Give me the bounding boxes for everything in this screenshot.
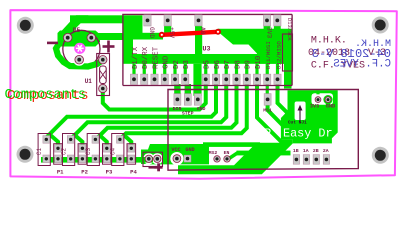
- svg-text:C4: C4: [110, 148, 117, 156]
- pad GND mid: [194, 94, 201, 106]
- pad DIR: [174, 94, 181, 106]
- connector P2 outline: [78, 144, 87, 165]
- wire: net U1-D5: [103, 82, 206, 110]
- wire: strip above MS2/EN: [203, 142, 260, 147]
- wire: 3V3 top pad stub: [264, 26, 271, 31]
- svg-text:3V3: 3V3: [266, 27, 273, 38]
- pad 2B: [313, 155, 319, 165]
- via right of red trace: [215, 29, 220, 34]
- svg-text:GND: GND: [163, 55, 171, 69]
- svg-text:Easy Dr: Easy Dr: [283, 127, 333, 141]
- pad P1 top: [55, 145, 62, 153]
- svg-text:Composants: Composants: [5, 88, 87, 103]
- svg-text:R5: R5: [73, 27, 81, 34]
- pad C1 bottom: [43, 155, 50, 163]
- svg-text:P2: P2: [81, 169, 88, 176]
- pad C2 top: [67, 136, 74, 144]
- svg-text:D2: D2: [173, 60, 181, 69]
- component U1 outline: [97, 54, 110, 96]
- svg-text:2A: 2A: [323, 148, 329, 154]
- svg-text:1B: 1B: [293, 148, 299, 154]
- svg-text:GND: GND: [185, 147, 194, 153]
- wire: wide D4 trace down to GND pad: [193, 64, 201, 96]
- wire: net D12 diagonal into pour: [278, 82, 292, 117]
- wire: diagonal band1 to R5 blob: [61, 15, 89, 31]
- R5 pink center with star: [74, 43, 85, 54]
- pad 1A: [303, 155, 309, 165]
- svg-text:U1: U1: [85, 78, 93, 85]
- plus mark power: [155, 163, 163, 171]
- pad 1B: [293, 155, 299, 165]
- svg-text:D9: D9: [245, 60, 253, 69]
- svg-text:STEP: STEP: [182, 110, 194, 116]
- wire: VCC/GND power band: [145, 144, 209, 164]
- pad P2 top: [79, 145, 86, 153]
- pad MS1: [264, 94, 271, 106]
- minus mark power: [149, 166, 156, 169]
- pad STEP: [184, 94, 191, 106]
- svg-text:VCC: VCC: [171, 147, 180, 153]
- svg-text:D3: D3: [183, 60, 191, 69]
- wire: strip to EN/pour: [237, 151, 291, 156]
- svg-text:GND: GND: [148, 27, 155, 38]
- svg-text:MS2: MS2: [209, 150, 218, 156]
- pad C4 bottom: [117, 155, 124, 163]
- U3 main pin row pads: [130, 74, 281, 84]
- wire: GND pad ring in pour: [323, 95, 332, 104]
- plus mark right of R5: [103, 41, 115, 53]
- wire: branch to P1 top: [50, 134, 59, 148]
- board outline: [10, 10, 396, 179]
- wire: U3 pour top-left block: [123, 15, 143, 39]
- svg-text:D1/TX: D1/TX: [132, 46, 140, 69]
- svg-text:A0: A0: [199, 27, 206, 35]
- svg-text:P1: P1: [57, 169, 64, 176]
- pad R5 bottom: [75, 55, 84, 64]
- wire: green under power connector: [141, 150, 164, 165]
- pad C3 bottom: [92, 155, 99, 163]
- wire: 3V3 stub up: [316, 90, 319, 94]
- wire: trace under GND pad to red via: [142, 33, 163, 40]
- via left of red trace: [159, 32, 164, 37]
- wire: red +5V trace: [162, 32, 218, 35]
- pad C1 top: [43, 136, 50, 144]
- pad C3 top: [92, 136, 99, 144]
- wire: band 2 from R5 to U3: [98, 33, 123, 40]
- wire: D13 top pad stub: [274, 26, 281, 31]
- mounting hole top-left: [17, 17, 34, 34]
- wire: D2 to DIR stub: [174, 84, 180, 95]
- svg-text:tuP: tuP: [250, 127, 271, 141]
- power connector outline: [143, 152, 163, 166]
- svg-text:RESET: RESET: [152, 46, 160, 69]
- svg-text:D5: D5: [204, 60, 212, 69]
- svg-text:D0/RX: D0/RX: [142, 46, 150, 69]
- pad +5V top: [164, 15, 171, 26]
- svg-text:D7: D7: [224, 60, 232, 69]
- wire: top band 1 to R5: [70, 15, 123, 23]
- wire: net D11 via MS1 into pour (white clearance): [266, 84, 269, 95]
- pad VCC: [173, 155, 181, 163]
- svg-text:+5V: +5V: [168, 27, 175, 38]
- wire: A0 pad stub down: [195, 26, 202, 56]
- svg-text:C3: C3: [85, 148, 92, 156]
- pad U1 bottom: [99, 84, 107, 92]
- pad D13/SCK top: [274, 15, 281, 26]
- wire: stubs band3 to U3 pin row: [132, 64, 279, 75]
- svg-text:3V3: 3V3: [310, 103, 319, 109]
- svg-text:P3: P3: [106, 169, 113, 176]
- svg-text:M.H.K.: M.H.K.: [311, 36, 347, 47]
- capacitor C4 outline: [112, 134, 124, 166]
- svg-text:D10: D10: [255, 56, 263, 69]
- U1 body: [100, 66, 107, 84]
- wire: bottom bus to C/P pads: [41, 157, 153, 163]
- svg-text:EN: EN: [224, 150, 230, 156]
- pad R5 left: [63, 33, 72, 42]
- wire: EN stub from strip: [229, 153, 238, 159]
- svg-text:C.F. YVES: C.F. YVES: [333, 59, 391, 71]
- svg-text:D6: D6: [214, 60, 222, 69]
- potentiometer R5 outline: [63, 30, 100, 67]
- pad EN: [224, 156, 230, 162]
- pad P4 top: [128, 145, 135, 153]
- svg-text:U3: U3: [203, 46, 211, 53]
- svg-text:2B: 2B: [313, 148, 319, 154]
- connector P3 outline: [103, 144, 112, 165]
- svg-text:D12/MISO: D12/MISO: [275, 41, 282, 69]
- svg-text:1A: 1A: [303, 148, 309, 154]
- svg-text:GND: GND: [326, 103, 335, 109]
- pad A0 top: [195, 15, 202, 26]
- svg-text:C2: C2: [60, 148, 67, 156]
- wire: net D10 diagonal into wedge: [257, 82, 284, 144]
- driver module outline: [168, 90, 358, 171]
- wire: bottom wide band with wedge to pour: [178, 139, 293, 174]
- label C.F. YVES blue mirrored: [333, 59, 391, 71]
- pad GND top: [144, 15, 151, 26]
- mounting hole bottom-right: [372, 147, 389, 164]
- pad U1 top: [99, 56, 107, 64]
- connector P4 outline: [127, 144, 136, 165]
- arrow cut SJ1: [298, 105, 303, 124]
- pad R5 right: [87, 33, 96, 42]
- minus mark left of R5: [47, 42, 58, 45]
- pad MS2: [214, 156, 220, 162]
- pad 2A: [323, 155, 329, 165]
- wire: branch to P4 top: [123, 134, 131, 148]
- wire: band 3 across U3: [123, 54, 292, 64]
- svg-text:P4: P4: [130, 169, 137, 176]
- pad power -: [145, 155, 152, 162]
- pad 3V3 top: [263, 15, 270, 26]
- svg-text:D8: D8: [234, 60, 242, 69]
- wire: branch to P2 top: [74, 134, 83, 148]
- clearance around R5 bottom pad: [73, 54, 85, 66]
- svg-text:MS1: MS1: [263, 107, 272, 113]
- label 04-2018 V-3 blue mirrored: [312, 47, 391, 61]
- pad 3V3 small: [315, 97, 321, 103]
- svg-text:DIR: DIR: [173, 106, 182, 112]
- pad P4 bottom: [128, 155, 135, 163]
- wire: U3 right pour: [218, 29, 292, 89]
- pad P1 bottom: [55, 155, 62, 163]
- wire: right module ground pour: [281, 90, 338, 143]
- label M.H.K. blue mirrored: [355, 39, 391, 50]
- capacitor C3 outline: [87, 134, 99, 166]
- svg-text:D13/SCK: D13/SCK: [286, 18, 292, 41]
- pad GND power: [184, 155, 191, 162]
- wire: branch to P3 top: [99, 134, 107, 148]
- svg-text:C1: C1: [36, 148, 43, 156]
- jumper SJ1 box: [283, 34, 293, 71]
- wire: net D9 to C4/P4: [120, 82, 247, 139]
- component U3 outline (arduino nano socket): [123, 14, 292, 85]
- pad P3 bottom: [103, 155, 110, 163]
- pad C4 top: [117, 136, 124, 144]
- svg-text:GND: GND: [197, 106, 206, 112]
- pad GND small: [325, 97, 331, 103]
- svg-text:D11/MOSI: D11/MOSI: [265, 41, 272, 69]
- pad power +: [154, 155, 161, 162]
- wire: net D7 to C2/P2: [71, 82, 226, 140]
- capacitor C1 outline: [38, 134, 50, 166]
- wire: R5 around-left trace to U1: [56, 45, 102, 67]
- mounting hole top-right: [372, 17, 389, 34]
- svg-text:C.F.: C.F.: [311, 61, 335, 72]
- wire: D3 to STEP stub: [185, 84, 191, 95]
- connector P1 outline: [54, 144, 63, 165]
- white clearance VCC pad: [170, 152, 183, 165]
- pad P3 top: [103, 145, 110, 153]
- mounting hole bottom-left: [17, 146, 34, 163]
- pad C2 bottom: [67, 155, 74, 163]
- capacitor C2 outline: [63, 134, 75, 166]
- wire: R5 pads blob: [58, 31, 101, 47]
- pad P2 bottom: [79, 155, 86, 163]
- wire: +5V pad stub: [164, 26, 171, 37]
- wire: U3 pour left column: [123, 36, 133, 58]
- svg-text:Cut SJ1: Cut SJ1: [288, 119, 307, 125]
- wire: net D8 to C3/P3: [96, 82, 237, 140]
- wire: net D6 to C1/P1: [46, 82, 216, 140]
